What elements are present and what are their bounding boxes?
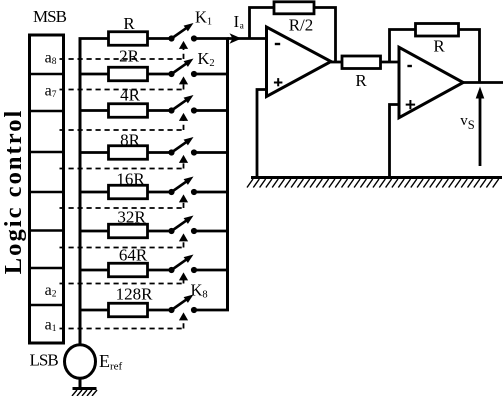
svg-text:a7: a7 [45, 83, 57, 101]
svg-text:R: R [123, 14, 135, 33]
svg-text:16R: 16R [116, 170, 145, 189]
svg-text:R: R [433, 37, 445, 56]
node switch K6 output [191, 228, 197, 234]
node switch K4 input [168, 149, 174, 155]
control arrow row 3 [179, 113, 188, 121]
switch K6 arm [172, 220, 188, 231]
op-amp U1 [267, 27, 332, 97]
wire row 1 from reference bus to switch [79, 37, 172, 40]
control arrow row 2 [179, 76, 188, 84]
svg-text:64R: 64R [119, 246, 148, 265]
wire row 4 switch output to summing bus [194, 151, 229, 154]
wire reference bus (Eref to resistors) [79, 39, 82, 347]
node switch K5 input [168, 189, 174, 195]
wire row 2 switch output to summing bus [194, 73, 229, 76]
svg-text:Ia: Ia [234, 12, 245, 32]
switch K8 arm [172, 299, 188, 310]
switch K1 arm [172, 27, 188, 38]
current arrow Ia [230, 33, 242, 44]
ground (op-amp stage) [251, 176, 502, 179]
wire U1 output [331, 61, 342, 64]
node switch K5 output [191, 189, 197, 195]
U2 non-inverting pin + [406, 104, 415, 106]
control line row 1 (dashed) [60, 58, 184, 60]
wire row 5 switch output to summing bus [194, 191, 229, 194]
label Logic control [0, 111, 27, 275]
node switch K3 output [191, 107, 197, 113]
wire summing bus to U1 inverting input [228, 37, 267, 40]
wire series R to U2 inverting input [381, 61, 400, 64]
wire summing bus (switch outputs) [226, 39, 229, 311]
switch K3 arm [172, 99, 188, 110]
resistor R (series) [342, 56, 381, 69]
svg-text:K8: K8 [191, 281, 208, 301]
op-amp U2 [399, 47, 463, 117]
control line row 6 (dashed) [60, 247, 184, 249]
switch K7 arm [172, 259, 188, 270]
switch K5 arm [172, 181, 188, 192]
logic control register [30, 35, 64, 343]
arrow vS (output voltage) [479, 96, 482, 166]
svg-text:K1: K1 [195, 7, 212, 27]
svg-text:32R: 32R [117, 208, 146, 227]
node switch K7 output [191, 267, 197, 273]
control arrow row 1 [179, 41, 188, 49]
wire row 7 switch output to summing bus [194, 269, 229, 272]
node switch K8 input [168, 307, 174, 313]
wire row 8 from reference bus to switch [79, 309, 172, 312]
wire row 4 from reference bus to switch [79, 151, 172, 154]
control arrow row 8 [179, 312, 188, 320]
node switch K3 input [168, 107, 174, 113]
node switch K2 input [168, 71, 174, 77]
control arrow row 6 [179, 233, 188, 241]
voltage source Eref [65, 345, 96, 379]
wire row 6 switch output to summing bus [194, 230, 229, 233]
node switch K1 input [168, 35, 174, 41]
wire row 3 from reference bus to switch [79, 109, 172, 112]
svg-text:2R: 2R [119, 47, 140, 66]
wire row 1 switch output to summing bus [194, 37, 229, 40]
resistor R [109, 32, 148, 46]
resistor 16R [109, 185, 148, 199]
wire U2 output vS [463, 81, 503, 84]
wire row 7 from reference bus to switch [79, 269, 172, 272]
switch K4 arm [172, 141, 188, 152]
resistor R (U2 feedback) [416, 24, 459, 37]
control line row 8 (dashed) [60, 328, 184, 330]
resistor 128R [109, 303, 148, 317]
control arrow row 4 [179, 155, 188, 163]
svg-text:Eref: Eref [99, 351, 123, 373]
wire U2 feedback loop [390, 30, 480, 83]
svg-text:128R: 128R [116, 285, 154, 304]
wire row 2 from reference bus to switch [79, 73, 172, 76]
node switch K4 output [191, 149, 197, 155]
node switch K7 input [168, 267, 174, 273]
svg-text:R/2: R/2 [289, 16, 314, 35]
resistor 4R [109, 104, 148, 118]
svg-text:Logic control: Logic control [0, 111, 27, 275]
resistor R/2 (U1 feedback) [274, 2, 314, 14]
control arrow row 5 [179, 194, 188, 202]
svg-text:MSB: MSB [33, 7, 67, 26]
wire U1 feedback loop [250, 8, 336, 63]
wire Eref to ground [79, 378, 82, 388]
resistor 64R [109, 263, 148, 277]
control line row 5 (dashed) [60, 207, 184, 209]
node switch K8 output [191, 307, 197, 313]
wire row 6 from reference bus to switch [79, 230, 172, 233]
svg-text:a8: a8 [45, 50, 57, 68]
svg-text:vS: vS [460, 113, 475, 132]
U1 non-inverting pin + [274, 82, 283, 84]
control line row 7 (dashed) [60, 283, 184, 285]
wire U2 non-inverting input to ground [390, 105, 400, 177]
wire row 3 switch output to summing bus [194, 109, 229, 112]
control arrow row 7 [179, 272, 188, 280]
svg-text:a1: a1 [45, 317, 57, 335]
svg-text:8R: 8R [120, 131, 141, 150]
wire row 8 switch output to summing bus [194, 309, 229, 312]
ground (Eref) [73, 387, 97, 390]
svg-text:a2: a2 [45, 282, 57, 300]
svg-text:R: R [355, 71, 367, 90]
node switch K2 output [191, 71, 197, 77]
U1 inverting pin - [275, 43, 280, 45]
node switch K6 input [168, 228, 174, 234]
svg-text:4R: 4R [120, 86, 141, 105]
svg-text:K2: K2 [198, 49, 215, 69]
resistor 2R [109, 67, 148, 81]
switch K2 arm [172, 63, 188, 74]
svg-text:LSB: LSB [30, 351, 59, 370]
control line row 3 (dashed) [60, 129, 184, 131]
resistor 32R [109, 224, 148, 238]
U2 inverting pin - [407, 65, 412, 67]
control line row 4 (dashed) [60, 168, 184, 170]
wire U1 non-inverting input to ground [257, 90, 267, 177]
wire row 5 from reference bus to switch [79, 191, 172, 194]
resistor 8R [109, 146, 148, 160]
control line row 2 (dashed) [60, 89, 184, 91]
node switch K1 output [191, 35, 197, 41]
